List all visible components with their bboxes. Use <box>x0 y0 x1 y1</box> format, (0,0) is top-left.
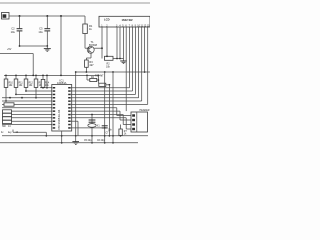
svg-text:PIC16F84A-04: PIC16F84A-04 <box>57 109 61 129</box>
svg-text:16X2 SIZ: 16X2 SIZ <box>122 18 134 22</box>
IC1 right pin wires to LCD data <box>71 87 130 89</box>
border frame top <box>0 2 150 4</box>
wire long drop x113 <box>112 72 114 143</box>
ground rail bottom <box>2 135 148 137</box>
svg-text:4k7: 4k7 <box>89 63 94 67</box>
svg-text:C6 22p: C6 22p <box>97 140 105 142</box>
node top rail C2 <box>19 15 21 17</box>
wire +5V feed from left edge <box>0 53 33 55</box>
wire IC vss drop <box>61 131 63 143</box>
resistor R11 pullup <box>15 75 17 79</box>
svg-text:10u: 10u <box>38 30 43 34</box>
ground rail 2 <box>0 142 138 144</box>
svg-text:4k7: 4k7 <box>100 75 105 78</box>
svg-text:R1: R1 <box>89 24 93 28</box>
wire IC vdd drop <box>75 72 77 136</box>
wire left bus line 7 <box>2 120 52 122</box>
IC1 right pin numbers <box>68 87 71 89</box>
wire pullup +5V rail y75.4 <box>4 74 99 76</box>
resistor R7 <box>120 125 122 130</box>
resistor R10 pullup <box>5 75 7 79</box>
resistor R15 inline <box>4 103 14 106</box>
ground GND3 <box>75 136 77 142</box>
wire left bus line 2 <box>2 103 52 105</box>
wire left bus line 1 <box>2 100 52 102</box>
capacitor C3 <box>46 16 48 28</box>
wire +5V drop to pullup rail <box>60 16 62 76</box>
capacitor C6 column <box>104 72 106 143</box>
wire IC pin3 line <box>16 93 52 95</box>
op IC1 PIC16F84A body <box>52 85 72 132</box>
IC1 osc pin wires <box>71 120 78 122</box>
svg-text:10u: 10u <box>11 30 16 34</box>
wire drop x109 <box>108 85 110 136</box>
svg-text:R10: R10 <box>9 82 14 84</box>
svg-text:R12: R12 <box>29 82 34 84</box>
wire left bus line 4 <box>2 110 52 112</box>
LCD pin 4 wire <box>116 27 118 59</box>
connector J1 power input <box>2 13 10 20</box>
IC1 wires to header staircase <box>71 107 117 109</box>
LCD module box <box>99 16 150 27</box>
svg-text:C3: C3 <box>39 27 43 31</box>
node top rail to pullup rail <box>60 15 62 17</box>
node top rail C3 <box>46 15 48 17</box>
wire +V top rail <box>9 15 85 17</box>
resistor R1 <box>84 16 86 24</box>
resistor R14 pullup <box>42 75 44 79</box>
resistor R5 contrast chain <box>86 76 88 81</box>
wire left bus line 5 <box>2 114 52 116</box>
svg-text:C2: C2 <box>11 27 15 31</box>
crystal X1 column <box>91 115 93 143</box>
wire LCD backlight to +5V <box>144 27 146 72</box>
ground GND1 <box>46 46 48 48</box>
wire mid distribution rail y72 <box>76 71 150 73</box>
LCD pin 16 wire <box>106 27 108 56</box>
wire contrast gnd <box>113 58 124 60</box>
wire left bus line 3 <box>2 107 52 109</box>
svg-text:R11: R11 <box>19 82 24 84</box>
trimmer R2 <box>105 56 114 60</box>
ground GND2 <box>123 59 125 61</box>
resistor R3 emitter <box>85 60 89 67</box>
wire rail stub x47 <box>46 75 48 87</box>
svg-text:LCD: LCD <box>104 18 110 22</box>
wire left bus line 6 <box>2 117 52 119</box>
LCD pin 5 wire <box>119 27 121 59</box>
wire IC pin4 line <box>2 97 52 99</box>
resistor R12 pullup <box>25 75 27 79</box>
wire cap bottom rail <box>20 45 48 47</box>
wire IC pin1 line <box>40 87 52 89</box>
LCD pin 6 wire <box>123 27 125 59</box>
wire left bus line 8 <box>2 124 52 126</box>
LCD data pins down top segment <box>125 27 127 111</box>
LCD pin 15 wire <box>101 27 103 59</box>
svg-text:C5 22p: C5 22p <box>84 140 92 142</box>
resistor R5b chain lower <box>98 75 100 83</box>
svg-text:+5V: +5V <box>7 48 12 51</box>
wire IC pin2 line <box>26 90 52 92</box>
capacitor C2 <box>19 16 21 28</box>
IC1 left pin numbers <box>53 87 56 89</box>
resistor R13 pullup <box>35 75 37 79</box>
wire sw bottom link <box>12 130 14 133</box>
svg-text:HEADER: HEADER <box>140 109 150 112</box>
switch block SW dip <box>3 110 12 113</box>
